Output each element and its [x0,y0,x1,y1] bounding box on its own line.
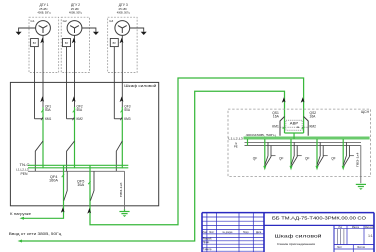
green phase wire below QF2 to bus [74,107,76,168]
svg-text:КМ1: КМ1 [45,117,52,121]
svg-text:Масса: Масса [352,226,360,229]
switch QS2 arrow [301,97,305,103]
N-PE bonding stub [247,139,249,146]
ground symbol of G3 (right) [130,28,144,32]
svg-text:БУ: БУ [113,41,117,45]
svg-text:БУ: БУ [65,41,69,45]
QF4 exit arrow [61,207,65,213]
arrow on G2 wire [72,38,76,44]
designation cell [264,224,374,226]
lit/massa/masshtab cells [334,228,374,230]
bus L1,L2,L3 (green pair) [28,164,128,166]
svg-text:L1,L2,L3: L1,L2,L3 [228,137,243,141]
svg-text:Лист: Лист [209,231,215,234]
svg-text:16А: 16А [77,183,85,187]
ground symbol of G2 (right) [82,28,96,32]
breaker QF1 arrow [40,96,44,102]
wire from G1 down into cabinet [42,35,44,107]
svg-text:50А: 50А [45,108,52,112]
QF1 green contact tick [41,109,43,112]
AVR dashed link to KM2 [302,126,308,128]
svg-text:КМ2: КМ2 [77,117,84,121]
svg-text:ПВЗ-1х6: ПВЗ-1х6 [119,182,123,197]
svg-text:БУ: БУ [33,41,37,45]
svg-text:ББ ТМ.АД-75-Т400-3РМК.00.00 СО: ББ ТМ.АД-75-Т400-3РМК.00.00 СО [272,215,367,220]
svg-text:L1,L2,L3: L1,L2,L3 [16,167,29,171]
arrowhead mains input [18,240,23,243]
svg-text:PE: PE [234,145,238,149]
contactor KM tick (QS1 path) [283,126,285,129]
svg-text:АВР: АВР [290,122,300,126]
PEN branch of generator 3 [116,141,122,171]
generator unit DGU2 dashed enclosure [61,17,89,72]
PEN branch of generator 2 [67,141,75,171]
generator G3 circle with star winding [115,21,130,36]
PE earth conductor PV3-1x4 [360,145,362,183]
svg-text:ПВЗ-1х4: ПВЗ-1х4 [355,152,359,167]
green phase wire below QF1 to bus [42,107,44,168]
svg-text:Ввод от сети 380В, 50Гц: Ввод от сети 380В, 50Гц [9,232,62,236]
ground symbol of G1 (left) [19,28,36,32]
svg-text:G2: G2 [63,19,67,23]
svg-text:400В, 50Гц: 400В, 50Гц [38,11,51,15]
breaker QF4 green feeder (to load) [22,165,64,218]
svg-text:Т.контр.: Т.контр. [203,247,213,251]
wire from G2 down into cabinet [74,35,76,107]
green tie of QS outputs [285,132,304,134]
svg-text:КМ3: КМ3 [124,117,131,121]
svg-text:QF: QF [305,157,309,161]
wire from G3 down into cabinet [121,35,123,107]
BU1 wire joins KM1 [35,118,44,120]
wire from BU3 down into cabinet [113,47,115,119]
bus PEN (gray) [28,170,125,172]
control unit BU3 box [110,39,118,47]
svg-text:1:1: 1:1 [368,234,373,238]
svg-text:Шкаф силовой: Шкаф силовой [124,84,156,88]
generator G1 circle with star winding [36,21,51,36]
BU2 wire joins KM2 [67,118,75,120]
svg-text:Пров.: Пров. [203,240,210,244]
switch QS1 black blade [280,117,285,136]
title block left section rows [202,216,264,218]
svg-text:Шкаф силовой: Шкаф силовой [275,234,323,239]
contactor KM tick (QS2 path) [302,126,304,129]
list/listov row [334,244,374,246]
svg-text:400В, 50Гц: 400В, 50Гц [117,11,130,15]
control unit BU2 box [63,39,71,47]
svg-text:Подп.: Подп. [243,231,250,234]
wire from BU2 down into cabinet [66,47,68,119]
contactor KM3 tick and label [120,117,122,120]
svg-text:QF: QF [253,157,257,161]
SchSN earth symbol [356,183,366,185]
QF3 green contact tick [121,109,123,112]
SchSN dashed enclosure [228,109,371,176]
generator unit DGU1 dashed enclosure [29,17,59,72]
breaker QF5 green feeder wire to SchSN reserve input [90,78,304,225]
mains input wire 380V to SchSN normal input [20,91,285,241]
power cabinet box (Shkaf silovoy) [10,82,158,205]
title block frame [202,212,374,214]
svg-text:160А: 160А [49,179,59,183]
QF5 black blade [90,171,94,200]
contactor KM2 tick and label [73,117,75,120]
green drop to SchSN bus [293,133,295,139]
svg-text:PEN: PEN [21,172,29,176]
svg-text:Изм: Изм [202,231,207,234]
svg-text:К нагрузке: К нагрузке [10,212,31,216]
generator G2 circle with star winding [67,21,82,36]
svg-text:400В, 50Гц: 400В, 50Гц [69,11,82,15]
QF2 green contact tick [73,109,75,112]
svg-text:Дата: Дата [256,231,262,234]
svg-text:Масштаб: Масштаб [365,226,375,229]
arrow on G1 wire [40,38,44,44]
generator unit DGU3 dashed enclosure [108,17,137,72]
svg-text:№ докум.: № докум. [222,231,233,234]
svg-text:G3: G3 [109,19,113,23]
svg-text:QF: QF [331,157,335,161]
svg-text:16А: 16А [273,114,280,118]
wire from BU1 down into cabinet [34,47,36,119]
name cell [333,225,335,252]
arrowhead K nagruzke [20,217,25,220]
arrow on G3 wire [120,38,124,44]
svg-text:400/230В, 50Гц: 400/230В, 50Гц [246,133,276,137]
svg-text:50А: 50А [124,108,131,112]
switch QS2 black blade [304,117,309,136]
contactor KM1 tick and label [41,117,43,120]
switch QS1 arrow [282,97,286,103]
svg-text:Схема присоединения: Схема присоединения [277,242,315,246]
PEN branch of generator 1 [35,141,43,171]
breaker QF3 arrow [120,96,124,102]
AVR dashed link to KM1 [280,126,286,128]
AVR dashed link arrow [288,126,300,128]
svg-text:КМ2: КМ2 [310,125,317,129]
QF4 black blade [64,171,67,200]
earth symbol below cabinet [124,209,126,211]
BU3 wire joins KM3 [114,118,122,120]
PEN earth conductor PV3-1x6 [124,171,126,209]
ATS (AVR) dashed box [286,120,302,130]
svg-text:Разраб.: Разраб. [203,237,213,241]
green phase wire below QF3 to bus [121,107,123,168]
svg-text:QF: QF [279,157,283,161]
svg-text:Лист: Лист [337,246,343,249]
breaker QF2 arrow [72,96,76,102]
svg-text:G1: G1 [30,19,34,23]
svg-text:Листов: Листов [357,246,365,249]
control unit BU1 box [31,39,39,47]
svg-text:ЩСН: ЩСН [361,110,370,114]
svg-text:16А: 16А [310,114,317,118]
QF5 exit arrow [87,208,91,214]
title block left section columns [206,213,208,252]
svg-text:КМ1: КМ1 [272,125,279,129]
svg-text:50А: 50А [77,108,84,112]
